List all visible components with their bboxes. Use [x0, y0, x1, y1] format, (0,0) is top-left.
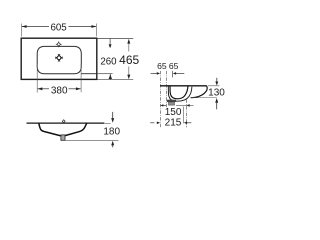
svg-text:65: 65 [157, 61, 167, 71]
svg-text:215: 215 [165, 117, 182, 128]
svg-text:180: 180 [103, 126, 120, 137]
svg-text:130: 130 [208, 88, 225, 99]
svg-text:260: 260 [100, 56, 117, 67]
svg-text:465: 465 [119, 53, 139, 67]
svg-text:605: 605 [51, 22, 67, 33]
svg-text:150: 150 [165, 107, 182, 118]
svg-text:380: 380 [51, 85, 68, 96]
svg-text:65: 65 [169, 61, 179, 71]
